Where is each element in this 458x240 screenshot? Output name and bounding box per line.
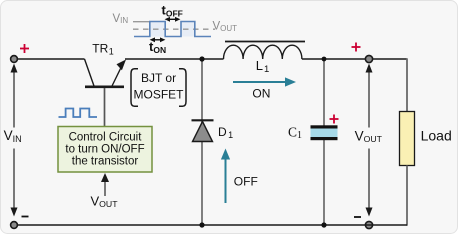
ON arrow: [233, 77, 296, 86]
svg-text:Load: Load: [421, 127, 452, 143]
waveform inset: square wave trace: [134, 22, 211, 37]
bottom rail wire: [17, 224, 407, 226]
control input square wave: [59, 109, 98, 118]
node - terminal output bottom: [365, 221, 372, 228]
diode D1 branch wire: [201, 59, 203, 225]
bracket right of BJT note: [179, 69, 186, 107]
wire: load down to bottom rail: [406, 166, 408, 226]
minus sign bottom right: [354, 216, 361, 218]
inductor L1 core line: [225, 41, 305, 43]
svg-text:Control Circuit: Control Circuit: [69, 132, 143, 144]
bracket left of BJT note: [131, 69, 138, 107]
junction switch node: [199, 56, 204, 61]
minus sign bottom left: [22, 216, 29, 218]
svg-text:MOSFET: MOSFET: [134, 88, 185, 102]
wire: top-left to transistor: [17, 58, 85, 60]
svg-text:the transistor: the transistor: [72, 156, 139, 168]
wire: transistor to switch node: [125, 58, 224, 60]
control circuit box: [58, 127, 152, 173]
node - terminal bottom-left: [11, 222, 18, 229]
wire: output down to load: [406, 58, 408, 111]
svg-text:ON: ON: [252, 87, 270, 101]
junction capacitor tap: [322, 57, 327, 62]
node + terminal output: [365, 55, 372, 62]
svg-text:OFF: OFF: [234, 175, 258, 189]
plus sign capacitor: [330, 115, 339, 124]
node + terminal top-left: [11, 56, 18, 63]
waveform inset: VOUT dashed level line: [133, 28, 215, 30]
capacitor C1 branch wire: [323, 59, 325, 225]
capacitor C1: [311, 125, 338, 140]
plus sign output: [352, 43, 361, 52]
waveform inset: tOFF arrow: [165, 17, 181, 22]
VOUT feedback arrow into control box: [101, 173, 109, 196]
VOUT measurement arrow right: [366, 64, 373, 217]
waveform inset: pulse shading: [150, 22, 165, 37]
svg-text:BJT or: BJT or: [141, 71, 176, 85]
transistor TR1: [85, 59, 127, 127]
waveform inset: VIN label: [113, 13, 129, 25]
junction diode bottom: [199, 222, 204, 227]
load resistor: [400, 112, 415, 166]
junction capacitor bottom: [321, 222, 326, 227]
VIN measurement arrow left: [11, 64, 18, 217]
plus sign top-left: [20, 44, 29, 53]
OFF arrow: [221, 149, 230, 204]
waveform inset: VIN level line: [133, 21, 150, 23]
svg-text:to turn ON/OFF: to turn ON/OFF: [65, 144, 144, 156]
diode D1: [192, 120, 214, 141]
inductor L1 coil: [224, 45, 302, 59]
waveform inset: tON arrow: [150, 37, 166, 42]
wire: inductor to output: [302, 58, 407, 60]
control circuit text: [65, 132, 144, 168]
